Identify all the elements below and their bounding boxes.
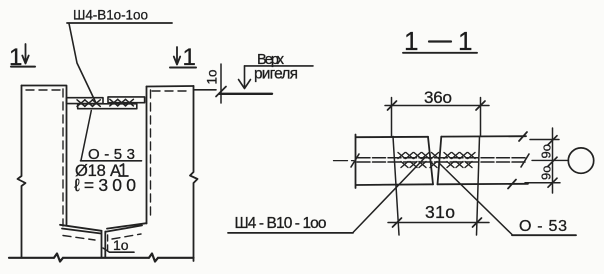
label О-53 bottom right — [512, 218, 576, 235]
svg-text:36о: 36о — [424, 88, 452, 107]
weld x marks right plate — [110, 99, 134, 106]
fish plate bottom — [78, 104, 137, 109]
weld x marks left plate — [77, 100, 100, 107]
leader of label Ш4-В1о-1оо — [69, 24, 96, 104]
svg-text:1: 1 — [458, 26, 472, 56]
embedded plate top-right — [108, 97, 145, 103]
dim 310 — [388, 202, 489, 227]
note Верх ригеля — [239, 52, 314, 89]
section mark 1 right — [170, 44, 196, 71]
svg-text:О - 53: О - 53 — [519, 218, 567, 235]
embedded plate top-left — [67, 98, 104, 104]
svg-text:9о: 9о — [539, 144, 554, 158]
label Ш4-В10-1оо bottom — [228, 215, 353, 233]
right girder hidden dashed lines — [108, 90, 190, 255]
svg-text:9о: 9о — [539, 166, 554, 180]
left girder hidden dashed lines — [26, 89, 95, 240]
svg-text:Ш4-В1о-1оо: Ш4-В1о-1оо — [73, 8, 148, 23]
axis circle — [568, 148, 593, 173]
leader of Ш4-В10-1оо bottom — [353, 158, 425, 233]
dim 1о bottom joint — [103, 237, 134, 253]
note Ø18 А1 — [75, 162, 128, 180]
plate top level line — [194, 89, 216, 91]
right girder outline — [105, 86, 197, 261]
title 1 - 1 — [403, 26, 477, 56]
beam seam lines — [357, 158, 527, 162]
weld x marks left cluster — [398, 153, 439, 168]
center line — [334, 154, 569, 167]
dim 360 — [385, 88, 489, 136]
label Ш4-В1о-1оо top — [67, 8, 172, 24]
left girder outline — [18, 86, 102, 258]
section mark 1 left — [9, 44, 35, 71]
beam outline section 1-1 — [356, 132, 529, 189]
svg-text:1: 1 — [404, 26, 418, 56]
dims 9о 9о right — [525, 128, 560, 193]
svg-text:31о: 31о — [425, 202, 455, 222]
weld x marks right cluster — [444, 153, 475, 168]
label О-53 left view — [81, 146, 142, 163]
leader of О-53 bottom right — [439, 163, 512, 235]
svg-text:ригеля: ригеля — [254, 66, 298, 83]
girder top level line — [220, 93, 273, 95]
svg-text:1о: 1о — [205, 69, 220, 84]
svg-text:1о: 1о — [113, 237, 129, 253]
dim 1о vertical at level line — [205, 64, 227, 103]
extension lines 310 through beam — [393, 137, 480, 236]
baseline ground — [9, 254, 194, 262]
svg-text:Ш4 - В10 - 1оо: Ш4 - В10 - 1оо — [235, 215, 327, 232]
leader of О-53 left view — [81, 111, 91, 161]
